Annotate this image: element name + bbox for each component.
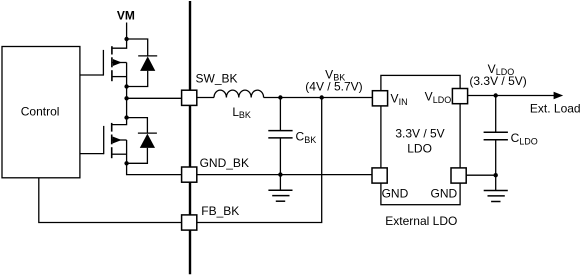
svg-text:V: V	[425, 90, 433, 104]
IC boundary line	[189, 1, 191, 274]
label VIN	[391, 92, 408, 107]
svg-text:Control: Control	[21, 105, 60, 119]
node source Q1 (junction dot)	[124, 84, 128, 88]
wire VM lead	[126, 23, 128, 40]
wire VBK rail	[264, 97, 373, 99]
label CLDO	[511, 131, 538, 146]
transistor Q2 (low-side NMOS)	[104, 120, 127, 164]
ground symbol left	[268, 175, 292, 202]
wire Control to FB_BK terminal	[39, 178, 182, 223]
wire SW_BK to inductor	[197, 97, 214, 99]
ground symbol right	[484, 175, 508, 201]
node CLDO ground (junction dot)	[494, 173, 498, 177]
svg-text:FB_BK: FB_BK	[201, 204, 239, 218]
label 3.3V / 5V LDO	[395, 127, 444, 156]
wire VLDO output	[468, 95, 554, 97]
pin GND left	[372, 168, 387, 183]
pin VIN	[372, 91, 387, 106]
node drain Q2 (junction dot)	[124, 115, 128, 119]
svg-text:External LDO: External LDO	[385, 214, 457, 228]
svg-text:GND: GND	[382, 187, 409, 201]
svg-text:GND: GND	[431, 187, 458, 201]
label VBK	[325, 67, 345, 82]
label CBK	[296, 130, 317, 145]
LDO box U1	[381, 75, 460, 204]
node CBK tap (junction dot)	[278, 95, 282, 99]
wire gate Q1	[80, 74, 104, 76]
node CLDO tap (junction dot)	[494, 93, 498, 97]
node VBK (junction dot)	[320, 95, 324, 99]
wire source Q2 to GND_BK terminal	[127, 163, 182, 174]
wire GND right pin to ground	[466, 174, 496, 176]
transistor Q1 (high-side NMOS)	[103, 41, 126, 87]
label VLDO pin	[425, 90, 452, 105]
label VLDO output	[488, 62, 515, 77]
diode D2 (body diode of Q2)	[127, 118, 157, 164]
svg-text:V: V	[391, 92, 399, 106]
capacitor CLDO	[484, 96, 508, 176]
svg-text:BK: BK	[239, 110, 251, 120]
svg-text:3.3V / 5V: 3.3V / 5V	[395, 127, 444, 141]
wire SW node to drain Q2	[126, 98, 128, 117]
wire gate Q2	[80, 153, 104, 155]
svg-text:VM: VM	[117, 8, 135, 22]
svg-text:(4V / 5.7V): (4V / 5.7V)	[305, 79, 362, 93]
svg-text:BK: BK	[304, 135, 316, 145]
terminal GND_BK	[182, 167, 197, 182]
svg-text:C: C	[296, 130, 305, 144]
pin VLDO	[452, 89, 467, 104]
svg-text:IN: IN	[399, 97, 408, 107]
inductor LBK	[214, 90, 264, 97]
svg-text:(3.3V / 5V): (3.3V / 5V)	[469, 74, 526, 88]
svg-text:SW_BK: SW_BK	[196, 71, 238, 85]
terminal SW_BK	[182, 90, 197, 105]
capacitor CBK	[268, 98, 292, 175]
wire SW node to SW_BK terminal	[127, 97, 182, 99]
svg-text:GND_BK: GND_BK	[200, 156, 249, 170]
svg-text:C: C	[511, 131, 520, 145]
svg-text:LDO: LDO	[433, 95, 452, 105]
svg-text:Ext. Load: Ext. Load	[530, 102, 581, 116]
node source Q2 (junction dot)	[124, 161, 128, 165]
wire FB feedback (VBK to FB_BK)	[197, 98, 322, 223]
wire source Q1 to SW node	[126, 87, 128, 99]
node SW (junction dot)	[124, 96, 128, 100]
pin GND right	[451, 168, 466, 183]
wire GND rail	[197, 174, 373, 176]
label LBK	[232, 105, 251, 120]
control block	[2, 47, 80, 178]
node CBK ground (junction dot)	[278, 172, 282, 176]
arrow Ext. Load	[554, 92, 564, 99]
svg-text:LDO: LDO	[407, 141, 432, 155]
terminal FB_BK	[182, 215, 197, 230]
node drain Q1 (junction dot)	[124, 37, 128, 41]
diode D1 (body diode of Q1)	[127, 39, 158, 87]
svg-text:LDO: LDO	[519, 136, 538, 146]
